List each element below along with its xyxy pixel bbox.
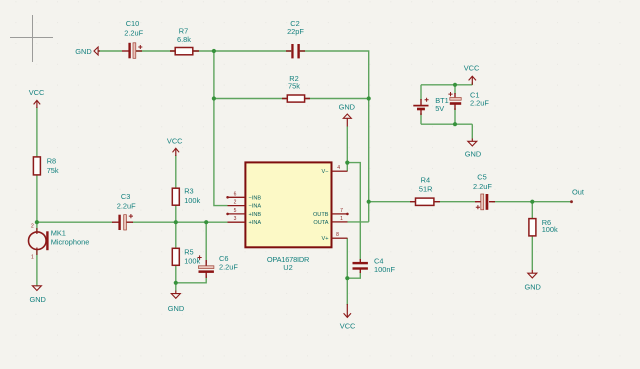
wire battery GND drop xyxy=(471,124,473,138)
node junction C4 bottom xyxy=(345,276,349,280)
svg-text:7: 7 xyxy=(340,208,343,214)
svg-text:OUTA: OUTA xyxy=(313,220,328,226)
wire R5 to GND junction xyxy=(175,264,177,290)
svg-text:75k: 75k xyxy=(288,82,300,91)
node junction R2 left xyxy=(212,96,216,100)
node junction R7/C2 xyxy=(212,49,216,53)
svg-text:1: 1 xyxy=(31,255,34,261)
wire battery top pin xyxy=(420,85,422,100)
wire C4 bottom to V+ column xyxy=(347,272,360,278)
resistor R2 xyxy=(282,74,310,102)
wire R7 to C2 xyxy=(192,50,292,52)
wire V+ pin8 down to VCC xyxy=(346,238,348,305)
svg-text:Out: Out xyxy=(572,187,584,196)
wire VCC to R8 xyxy=(36,107,38,158)
node junction R3/R5 xyxy=(174,220,178,224)
capacitor C4 xyxy=(353,257,396,274)
wire C3 to pin3 xyxy=(132,221,228,223)
svg-text:VCC: VCC xyxy=(29,88,45,97)
svg-text:GND: GND xyxy=(75,47,91,56)
node junction pin4 GND xyxy=(345,161,349,165)
wire R4 to C5 xyxy=(434,201,478,203)
wire battery bottom pin xyxy=(420,113,422,124)
wire C5 to Out xyxy=(492,201,572,203)
wire vertical from top junction to pin2 xyxy=(214,51,228,206)
svg-text:+INB: +INB xyxy=(249,212,262,218)
ground below R5 xyxy=(168,291,184,314)
wire battery bottom row xyxy=(421,123,472,125)
svg-text:2.2uF: 2.2uF xyxy=(219,263,238,272)
svg-text:2.2uF: 2.2uF xyxy=(117,201,136,210)
wire C6 bottom to GND junction xyxy=(176,276,206,283)
resistor R5 xyxy=(172,248,200,266)
capacitor C6 xyxy=(198,254,239,278)
pin 1 OUTA xyxy=(332,221,348,223)
wire top row GND to C10 xyxy=(98,50,122,52)
capacitor C1 xyxy=(448,90,489,110)
svg-text:5V: 5V xyxy=(435,104,444,113)
svg-text:2.2uF: 2.2uF xyxy=(124,29,143,38)
microphone MK1 xyxy=(29,224,90,261)
node junction C1 bottom xyxy=(453,122,457,126)
wire C2 to right corner xyxy=(299,51,369,222)
wire R8 to mic junction xyxy=(36,175,38,233)
wire R3 to main row xyxy=(175,205,177,223)
pin 4 V- xyxy=(332,170,348,172)
svg-text:GND: GND xyxy=(168,304,184,313)
wire output row R4 xyxy=(369,201,416,203)
svg-text:+INA: +INA xyxy=(249,220,262,226)
wire R2 row left xyxy=(214,98,288,100)
svg-text:GND: GND xyxy=(524,282,540,291)
svg-text:2: 2 xyxy=(234,200,237,206)
wire pin4 node to C4 column xyxy=(347,163,360,260)
capacitor C5 xyxy=(473,173,495,210)
svg-text:VCC: VCC xyxy=(464,63,480,72)
svg-text:U2: U2 xyxy=(283,263,292,272)
op-amp U2 OPA1678IDR xyxy=(226,162,348,271)
svg-text:Microphone: Microphone xyxy=(51,238,90,247)
pin 5 +INB xyxy=(228,213,246,215)
svg-text:100k: 100k xyxy=(542,225,558,234)
wire C1 top xyxy=(454,85,456,94)
svg-text:3: 3 xyxy=(234,216,237,222)
capacitor C3 xyxy=(112,192,136,230)
svg-text:GND: GND xyxy=(29,295,45,304)
ground battery xyxy=(465,139,481,159)
svg-text:5: 5 xyxy=(234,208,237,214)
svg-text:V+: V+ xyxy=(322,236,329,242)
svg-text:C10: C10 xyxy=(126,19,140,28)
svg-text:R3: R3 xyxy=(184,186,193,195)
resistor R3 xyxy=(172,186,200,205)
svg-text:−INB: −INB xyxy=(249,195,262,201)
power VCC mid xyxy=(167,137,183,156)
ground mic xyxy=(29,286,45,304)
power VCC left xyxy=(29,88,45,108)
wire R6 bottom to GND xyxy=(531,236,533,270)
node wire end Out xyxy=(570,200,573,203)
svg-text:C5: C5 xyxy=(477,173,486,182)
svg-text:GND: GND xyxy=(465,149,481,158)
svg-text:51R: 51R xyxy=(419,185,433,194)
pin 3 +INA xyxy=(228,221,246,223)
svg-text:22pF: 22pF xyxy=(287,27,304,36)
pin 7 OUTB xyxy=(332,213,348,215)
pin 6 -INB xyxy=(228,196,246,198)
power VCC below pin8 xyxy=(340,304,356,330)
power GND flag left xyxy=(75,47,100,56)
resistor R6 xyxy=(529,218,558,236)
svg-text:4: 4 xyxy=(337,165,340,171)
svg-text:6.8k: 6.8k xyxy=(177,35,191,44)
wire C6 top column xyxy=(205,222,207,263)
wire main row to R5 xyxy=(175,222,177,249)
pin 2 -INA xyxy=(228,205,246,207)
svg-text:100nF: 100nF xyxy=(374,265,395,274)
wire battery VCC rise xyxy=(471,83,473,85)
svg-text:2.2uF: 2.2uF xyxy=(473,182,492,191)
svg-text:C3: C3 xyxy=(121,192,130,201)
svg-text:OUTB: OUTB xyxy=(313,212,329,218)
resistor R8 xyxy=(33,157,59,175)
node junction mic xyxy=(35,220,39,224)
svg-text:MK1: MK1 xyxy=(51,228,66,237)
wire OUTA to vertical bus xyxy=(348,221,369,223)
node junction C1 top xyxy=(453,83,457,87)
crosshair origin marker xyxy=(10,15,53,62)
node junction R2 right xyxy=(367,96,371,100)
svg-text:VCC: VCC xyxy=(167,137,183,146)
node junction C6 top xyxy=(204,220,208,224)
node junction R5 GND xyxy=(174,281,178,285)
pin 8 V+ xyxy=(332,237,348,239)
wire mic bottom to GND xyxy=(36,250,38,287)
battery BT1 xyxy=(413,96,448,115)
node junction R6 top xyxy=(530,200,534,204)
svg-text:R5: R5 xyxy=(184,248,193,257)
svg-text:R8: R8 xyxy=(47,157,56,166)
wire GND symbol to pin4 node xyxy=(346,127,348,172)
wire main row mic to C3 xyxy=(37,221,113,223)
svg-text:1: 1 xyxy=(340,216,343,222)
power VCC battery xyxy=(464,63,480,85)
capacitor C10 xyxy=(122,19,144,58)
wire C10 to R7 xyxy=(134,50,176,52)
wire R6 top xyxy=(531,202,533,219)
svg-text:6: 6 xyxy=(234,191,237,197)
svg-text:V−: V− xyxy=(322,169,329,175)
wire R2 row right xyxy=(304,98,369,100)
wire VCC to R3 xyxy=(175,155,177,189)
wire battery top row xyxy=(421,84,472,86)
svg-text:100k: 100k xyxy=(184,196,200,205)
wire C1 bottom xyxy=(454,108,456,124)
ground above pin4 xyxy=(339,103,355,127)
svg-text:VCC: VCC xyxy=(340,321,356,330)
svg-text:−INA: −INA xyxy=(249,204,262,210)
capacitor C2 xyxy=(286,19,305,58)
resistor R4 xyxy=(410,175,440,205)
svg-text:8: 8 xyxy=(336,232,339,238)
node junction output bus xyxy=(367,200,371,204)
svg-text:2: 2 xyxy=(31,224,34,230)
resistor R7 xyxy=(170,27,199,55)
svg-text:2.2uF: 2.2uF xyxy=(470,99,489,108)
ground R6 xyxy=(524,270,540,291)
svg-text:75k: 75k xyxy=(47,166,59,175)
svg-text:R4: R4 xyxy=(421,175,430,184)
svg-text:GND: GND xyxy=(339,103,355,112)
